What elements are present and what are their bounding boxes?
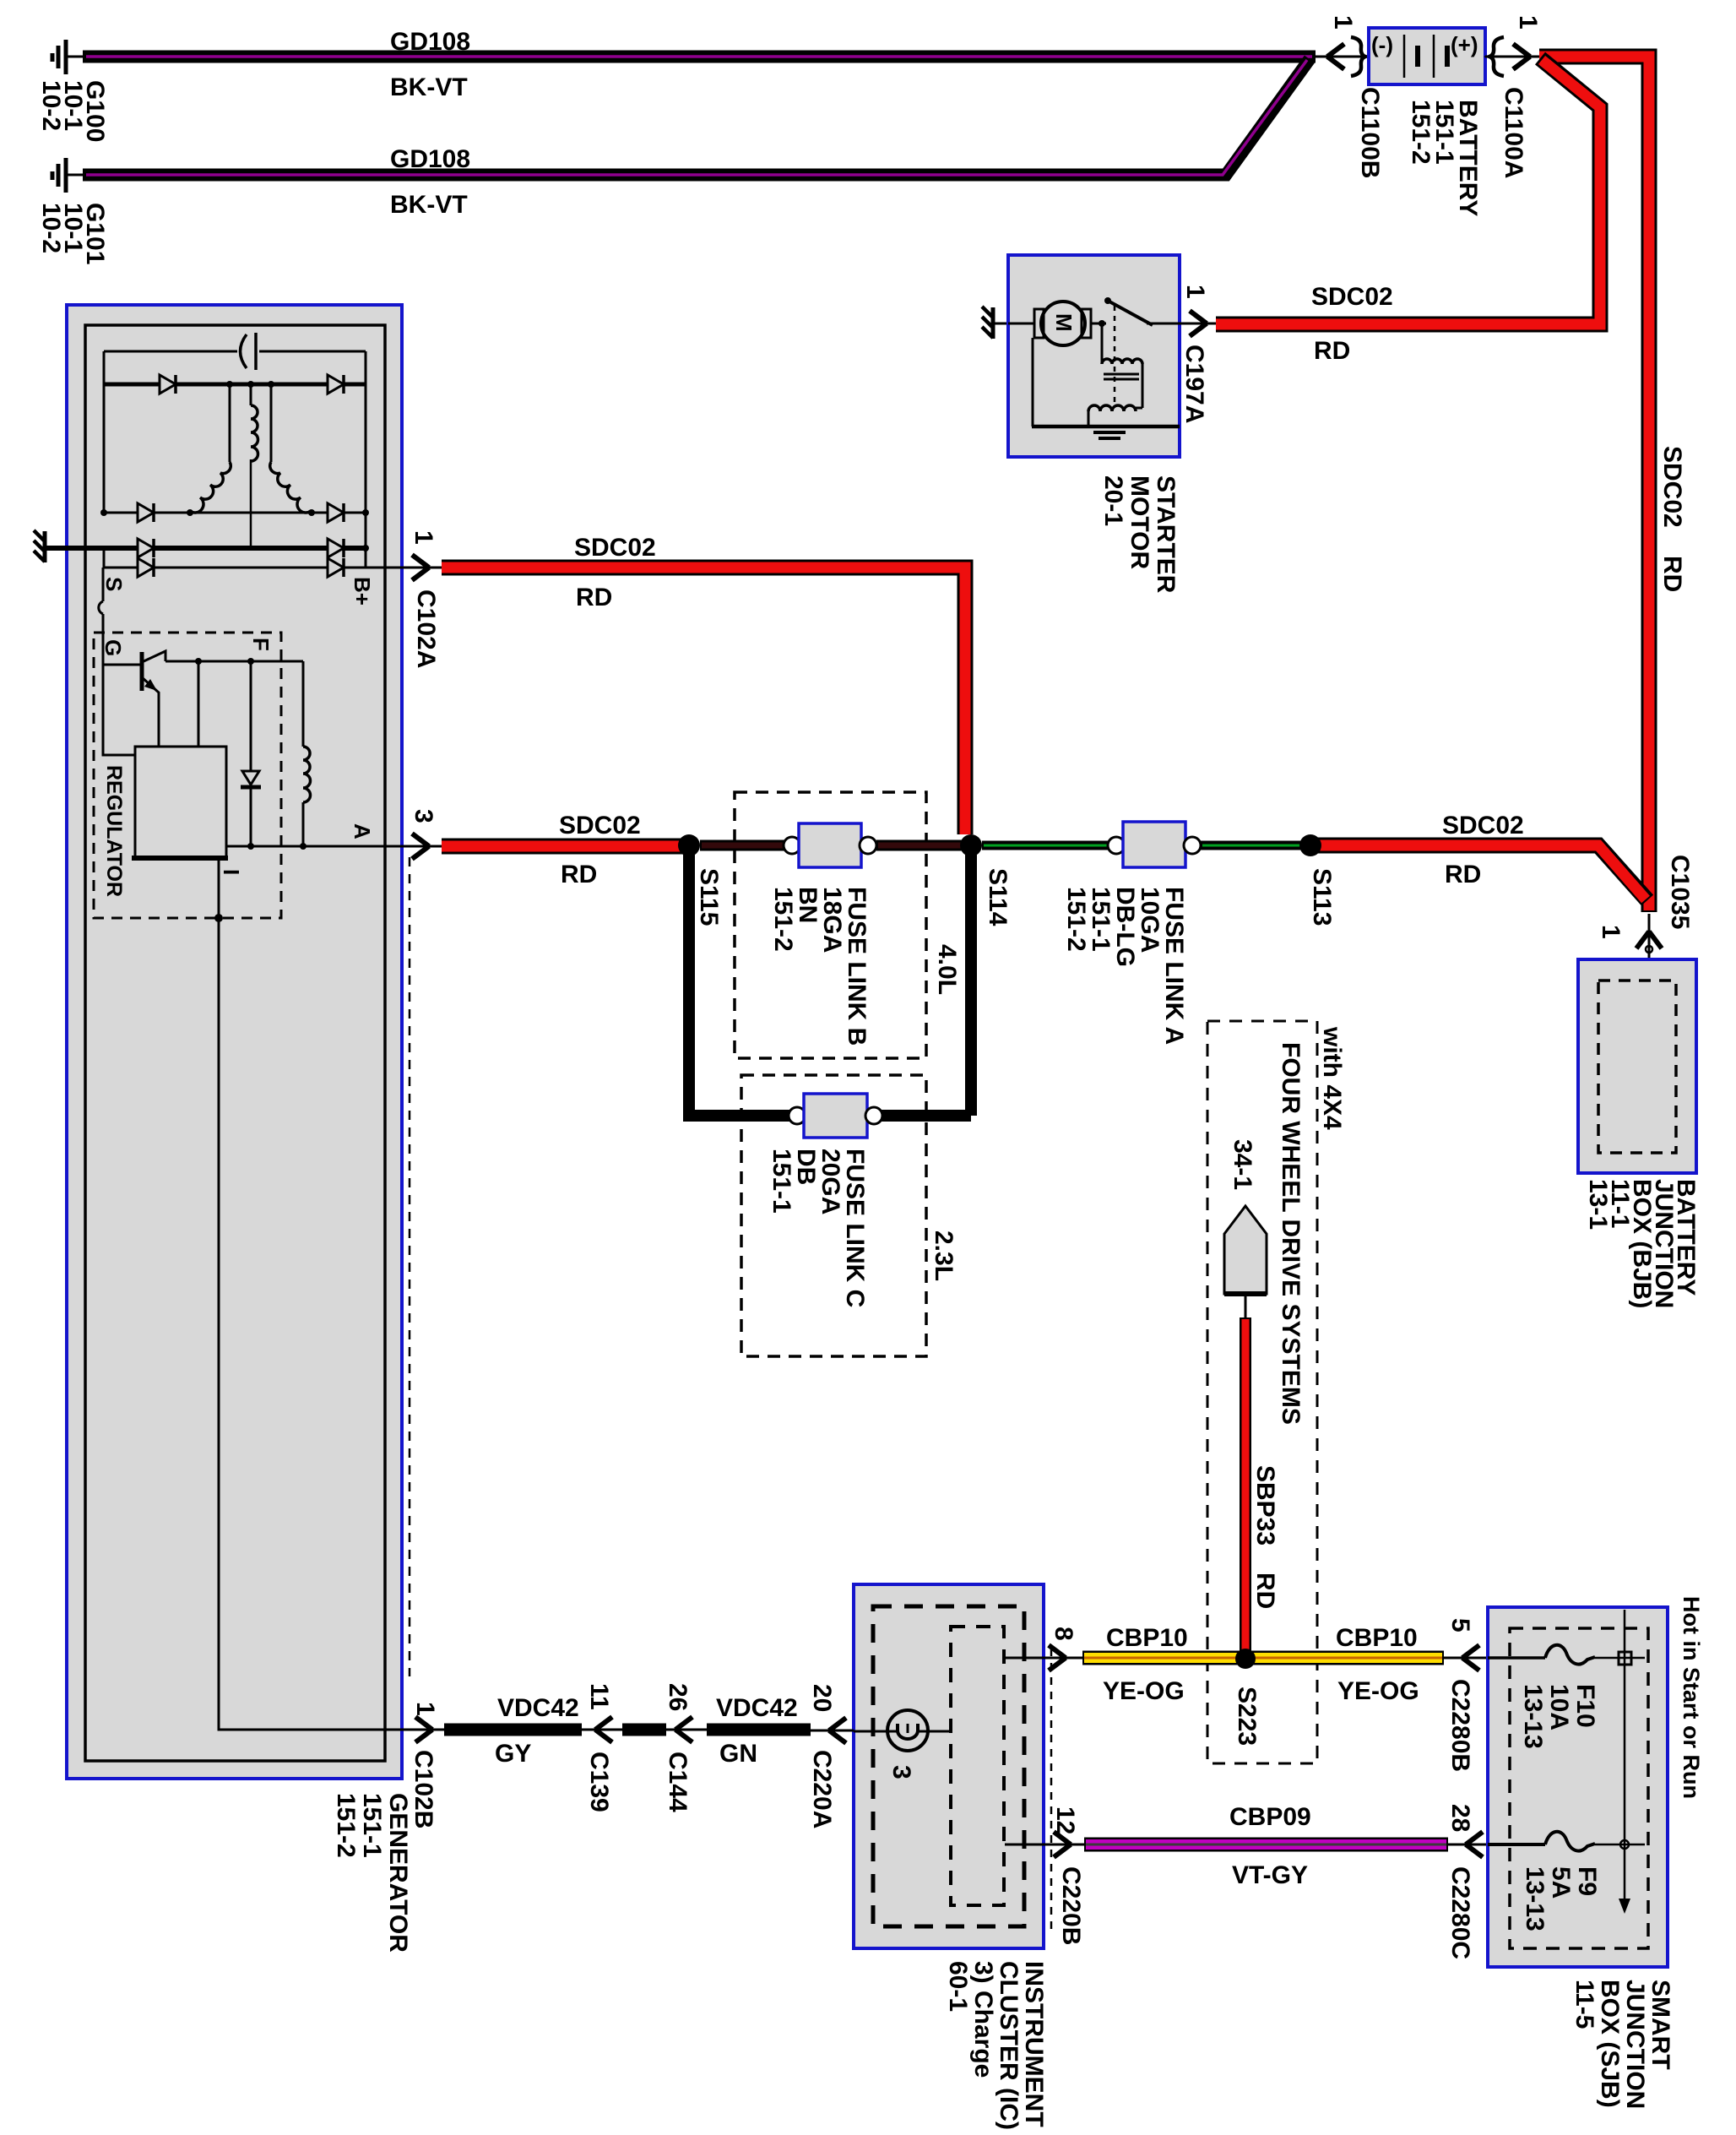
starter motor right brush	[1082, 309, 1091, 338]
capacitor on B+ rail	[104, 333, 366, 370]
wire SDC02 generator B+ to S114 (red)	[442, 568, 965, 834]
wire loop fuse link C to S114	[881, 849, 971, 1116]
fuse F9	[1488, 1832, 1645, 1851]
svg-text:C220A: C220A	[808, 1750, 836, 1828]
pin 1 arrow (C102A)	[384, 567, 442, 569]
starter motor left brush	[1034, 309, 1044, 338]
fuse F10	[1488, 1645, 1645, 1665]
svg-text:C1100B: C1100B	[1356, 87, 1384, 178]
wire VDC42 GY segment	[444, 1724, 582, 1736]
starter motor M circle	[1041, 302, 1085, 345]
wire VDC42 GN segment	[707, 1724, 811, 1736]
generator case ground wire	[45, 546, 366, 551]
ground at starter motor	[982, 307, 1008, 339]
svg-text:SDC02: SDC02	[1442, 812, 1524, 839]
svg-text:C2280C: C2280C	[1446, 1866, 1474, 1959]
svg-text:A: A	[350, 823, 375, 839]
lamp wires	[854, 1730, 951, 1733]
svg-text:SDC02: SDC02	[574, 534, 656, 562]
wire stub from battery positive	[1485, 56, 1539, 58]
regulator dashed box	[94, 633, 281, 918]
wire SDC02 A terminal to S115 (red)	[442, 839, 684, 855]
svg-text:S115: S115	[695, 868, 723, 926]
wire SBP33 RD (red)	[1240, 1317, 1251, 1655]
svg-text:12: 12	[1051, 1806, 1079, 1834]
instrument cluster outer dashed module	[873, 1606, 1024, 1926]
node S115	[678, 834, 700, 856]
SJB internal feed line	[1619, 1610, 1631, 1914]
svg-text:20: 20	[808, 1684, 836, 1712]
brace right of battery	[1489, 37, 1504, 76]
svg-text:1: 1	[1181, 285, 1209, 299]
wire BN fuse link B to S114	[876, 840, 963, 851]
wire BN to fuse link B	[700, 840, 790, 851]
fuse link A	[1108, 822, 1201, 867]
A output line	[226, 843, 413, 850]
svg-text:BK-VT: BK-VT	[390, 191, 468, 219]
fuse link C	[789, 1094, 882, 1138]
svg-text:C197A: C197A	[1180, 345, 1208, 423]
battery box	[1369, 28, 1485, 84]
pin 8 arrow (C220B)	[1049, 1645, 1066, 1671]
svg-text:FOUR WHEEL DRIVE SYSTEMS: FOUR WHEEL DRIVE SYSTEMS	[1277, 1042, 1305, 1425]
svg-text:1: 1	[410, 530, 437, 545]
pin 28 arrow (C2280C)	[1448, 1832, 1488, 1857]
pin 12 wire	[1005, 1844, 1084, 1846]
starter internal wire from ground	[1008, 323, 1035, 325]
pin 3 arrow (C102A)	[413, 845, 442, 848]
brace left of battery	[1351, 37, 1365, 76]
starter solenoid dashed actuator line	[1114, 306, 1116, 404]
svg-text:Hot in Start or Run: Hot in Start or Run	[1679, 1596, 1704, 1799]
svg-text:RD: RD	[1314, 337, 1350, 365]
diode row 2	[100, 503, 369, 522]
wire SDC02 starter feed (red)	[1216, 58, 1600, 324]
connector C220B dashed boundary	[1050, 1649, 1053, 1934]
generator inner frame	[85, 325, 385, 1761]
svg-text:GD108: GD108	[390, 145, 470, 173]
svg-text:3: 3	[410, 809, 437, 823]
wire GD108 BK-VT (G100 to battery C1100B)	[83, 51, 1316, 63]
svg-text:11: 11	[585, 1683, 613, 1710]
wire DB-LG S114 to fuse link A	[982, 841, 1115, 850]
stator center lead	[250, 459, 252, 548]
svg-text:2.3L: 2.3L	[930, 1230, 958, 1281]
svg-text:SDC02: SDC02	[1311, 283, 1393, 311]
svg-text:CBP09: CBP09	[1229, 1803, 1311, 1831]
svg-text:G: G	[100, 639, 126, 656]
svg-text:RD: RD	[576, 584, 612, 611]
svg-text:RD: RD	[1445, 861, 1481, 888]
ground G101	[52, 158, 84, 193]
svg-text:3: 3	[887, 1765, 915, 1779]
svg-text:5: 5	[1446, 1618, 1474, 1632]
svg-text:(-): (-)	[1371, 32, 1393, 57]
stator left winding	[190, 462, 231, 513]
fuse link B dashed box	[735, 792, 926, 1058]
svg-text:SDC02: SDC02	[1658, 446, 1686, 528]
instrument cluster box	[854, 1584, 1044, 1948]
charge indicator lamp	[887, 1710, 928, 1751]
battery junction box	[1578, 959, 1696, 1173]
battery junction box inner dashed	[1598, 981, 1676, 1153]
svg-text:8: 8	[1050, 1627, 1077, 1641]
four wheel drive dashed box	[1207, 1021, 1317, 1763]
svg-text:34-1: 34-1	[1229, 1139, 1256, 1190]
fuse link B	[784, 823, 876, 867]
wire GD108 BK-VT (G101, merges into top wire)	[83, 59, 1310, 175]
starter pin wire	[1180, 323, 1216, 325]
svg-text:RD: RD	[561, 861, 597, 888]
diode row 4 (B+ output)	[104, 548, 384, 577]
starter motor box	[1008, 255, 1180, 457]
rectifier left rail	[103, 351, 106, 513]
stator center winding	[251, 405, 258, 461]
svg-text:(+): (+)	[1451, 32, 1478, 57]
svg-text:C102A: C102A	[412, 589, 440, 668]
wire stub into battery negative	[1314, 56, 1369, 58]
svg-text:YE-OG: YE-OG	[1103, 1677, 1185, 1705]
svg-text:RD: RD	[1658, 556, 1686, 592]
connector C102 dashed boundary	[409, 857, 411, 1676]
svg-text:1: 1	[411, 1702, 439, 1716]
svg-text:VDC42: VDC42	[497, 1694, 579, 1722]
svg-text:CBP10: CBP10	[1336, 1624, 1418, 1652]
starter switch	[1091, 297, 1180, 327]
connector C1100A arrow	[1513, 44, 1530, 69]
smart junction box	[1488, 1607, 1668, 1967]
rectifier right rail	[365, 351, 367, 568]
svg-text:SBP33: SBP33	[1251, 1465, 1279, 1546]
diode row 3 (ground rail)	[138, 539, 369, 557]
svg-text:1: 1	[1514, 15, 1542, 30]
ground G100	[52, 40, 84, 74]
svg-text:S: S	[101, 577, 127, 591]
field coil	[303, 661, 311, 846]
svg-text:GD108: GD108	[390, 28, 470, 56]
svg-text:C220B: C220B	[1057, 1866, 1085, 1945]
I wire (indicator) down and out	[219, 858, 413, 1730]
stator phase taps	[230, 384, 271, 462]
node S114	[960, 834, 982, 856]
S wire down to regulator	[99, 568, 135, 755]
svg-text:4.0L: 4.0L	[933, 944, 961, 995]
generator box	[67, 305, 402, 1779]
battery cell plates	[1404, 35, 1447, 78]
wire CBP09 VT-GY (IC to SJB)	[1084, 1838, 1448, 1852]
regulator collector bus	[165, 658, 303, 747]
diode row 1 (B+ top rail)	[104, 375, 366, 394]
wire stub into BJB C1035	[1648, 914, 1651, 980]
instrument cluster inner dashed module	[951, 1627, 1004, 1905]
node S223	[1235, 1649, 1256, 1669]
pin 1 arrow (C102B)	[415, 1717, 432, 1742]
svg-text:REGULATOR: REGULATOR	[102, 765, 126, 897]
wire SDC02 battery feed to BJB (red)	[1310, 57, 1649, 912]
connector C1035 arrow	[1636, 932, 1662, 953]
regulator block	[132, 747, 228, 858]
svg-text:1: 1	[1597, 925, 1625, 939]
wire VDC42 middle segment	[622, 1724, 666, 1736]
svg-text:BK-VT: BK-VT	[390, 73, 468, 101]
starter bottom internal wire	[1032, 338, 1180, 426]
svg-text:VT-GY: VT-GY	[1232, 1861, 1308, 1889]
svg-text:SDC02: SDC02	[559, 812, 641, 839]
fuse link C dashed box	[741, 1075, 926, 1356]
svg-text:M: M	[1051, 313, 1077, 332]
svg-text:S223: S223	[1233, 1687, 1261, 1746]
svg-text:B+: B+	[350, 577, 375, 606]
F line with diode	[241, 661, 261, 846]
svg-text:1: 1	[1329, 15, 1357, 30]
smart junction box inner dashed	[1510, 1628, 1648, 1948]
starter solenoid hold winding	[1088, 405, 1142, 425]
wire VDC42 base line	[413, 1729, 811, 1731]
svg-text:C144: C144	[664, 1752, 692, 1812]
svg-text:VDC42: VDC42	[716, 1694, 798, 1722]
stator right winding	[270, 462, 311, 513]
svg-text:with 4X4: with 4X4	[1318, 1026, 1346, 1130]
connector C197A arrow	[1190, 311, 1207, 336]
wire DB-LG fuse link A to S113	[1201, 841, 1304, 850]
svg-text:S113: S113	[1308, 868, 1336, 926]
node S113	[1299, 834, 1321, 856]
connector C144 arrow	[675, 1717, 692, 1742]
svg-text:GN: GN	[719, 1740, 757, 1768]
svg-text:S114: S114	[984, 868, 1012, 926]
svg-text:C139: C139	[585, 1752, 613, 1812]
generator ground (left)	[34, 530, 45, 562]
svg-text:YE-OG: YE-OG	[1337, 1677, 1419, 1705]
pin 20 arrow (C220A)	[811, 1718, 854, 1743]
svg-text:C102B: C102B	[410, 1750, 437, 1828]
starter solenoid pull-in winding	[1102, 323, 1142, 408]
connector C1100B arrow	[1327, 44, 1344, 69]
pin 12 arrow (C220B)	[1054, 1832, 1071, 1857]
svg-text:C1100A: C1100A	[1500, 87, 1527, 178]
svg-text:F: F	[248, 638, 274, 651]
svg-text:C2280B: C2280B	[1446, 1679, 1474, 1772]
connector C139 arrow	[595, 1717, 612, 1742]
wire loop S115 to fuse link C	[689, 849, 790, 1116]
pin 8 wire	[1004, 1657, 1082, 1660]
four wheel drive destination arrow	[1224, 1206, 1267, 1317]
svg-text:26: 26	[664, 1683, 692, 1711]
pin 5 arrow (C2280B)	[1444, 1645, 1488, 1671]
starter internal ground	[1093, 432, 1126, 438]
wire CBP10 YE-OG (IC to S223)	[1082, 1651, 1444, 1665]
svg-text:C1035: C1035	[1666, 855, 1694, 929]
svg-text:28: 28	[1446, 1804, 1474, 1832]
svg-text:RD: RD	[1251, 1573, 1279, 1609]
svg-text:GY: GY	[495, 1740, 531, 1768]
transistor Q (regulator)	[103, 651, 165, 747]
svg-text:I: I	[219, 869, 244, 875]
svg-text:CBP10: CBP10	[1106, 1624, 1188, 1652]
